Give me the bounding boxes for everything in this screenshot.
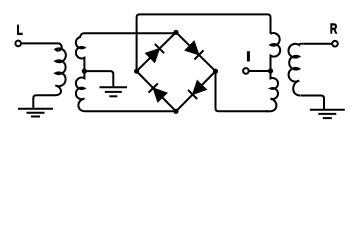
terminal L label: [17, 25, 22, 35]
wire T2 secondary bottom to ground G3: [301, 96, 325, 110]
terminal R circle: [332, 41, 338, 47]
terminal I circle: [243, 68, 249, 74]
wire I terminal to T2 center tap: [249, 70, 270, 72]
inductor L1: [54, 43, 66, 95]
transformer T1 secondary winding (center tapped): [76, 33, 176, 111]
transformer T2 secondary winding: [288, 44, 303, 96]
diode D2 (top node to right node): [185, 41, 204, 60]
node: ring top junction dot: [173, 30, 178, 35]
ground G3: [310, 110, 345, 118]
node: T2 center tap dot: [268, 68, 273, 73]
node: ring right junction dot: [213, 69, 218, 74]
wire R terminal to T2 secondary: [303, 43, 331, 45]
terminal I label: [247, 51, 250, 61]
wire: ring right node down and across bottom to output transformer: [216, 71, 269, 111]
diode ring edges: [137, 32, 216, 111]
wire L terminal to inductor L1: [22, 42, 54, 44]
transformer T2 primary winding (center tapped): [266, 33, 280, 111]
wire: ring left node up and across top to output transformer: [137, 14, 271, 71]
wire center tap to ground G2: [84, 71, 113, 86]
diode D4 (bottom node to left node): [149, 84, 168, 103]
terminal R label: [331, 24, 338, 34]
node: ring bottom junction dot: [173, 109, 178, 114]
terminal L circle: [15, 41, 21, 47]
node: ring left junction dot: [134, 69, 139, 74]
wire L1 bottom to ground: [33, 95, 55, 107]
ground G1: [18, 109, 53, 117]
diode D3 (right node to bottom node): [188, 81, 207, 100]
diode D1 (left node to top node): [146, 44, 165, 63]
node: T1 center tap dot: [82, 69, 87, 74]
ground G2: [100, 87, 128, 96]
